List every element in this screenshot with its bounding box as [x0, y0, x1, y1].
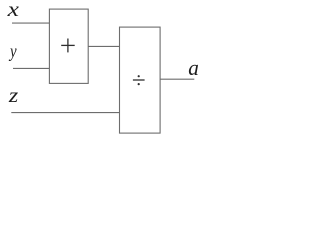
wire y input: [13, 67, 49, 69]
wire a output: [160, 78, 194, 80]
adder box U1: [49, 9, 88, 83]
wire z input: [11, 112, 119, 114]
divider box U2: [120, 27, 161, 133]
svg-text:a: a: [188, 55, 199, 79]
divide operator: [133, 75, 145, 85]
wire adder to divider: [88, 45, 119, 47]
plus operator: [61, 39, 74, 53]
svg-text:x: x: [7, 0, 19, 20]
wire x input: [12, 22, 49, 24]
svg-text:y: y: [8, 41, 17, 62]
svg-text:z: z: [8, 83, 19, 106]
